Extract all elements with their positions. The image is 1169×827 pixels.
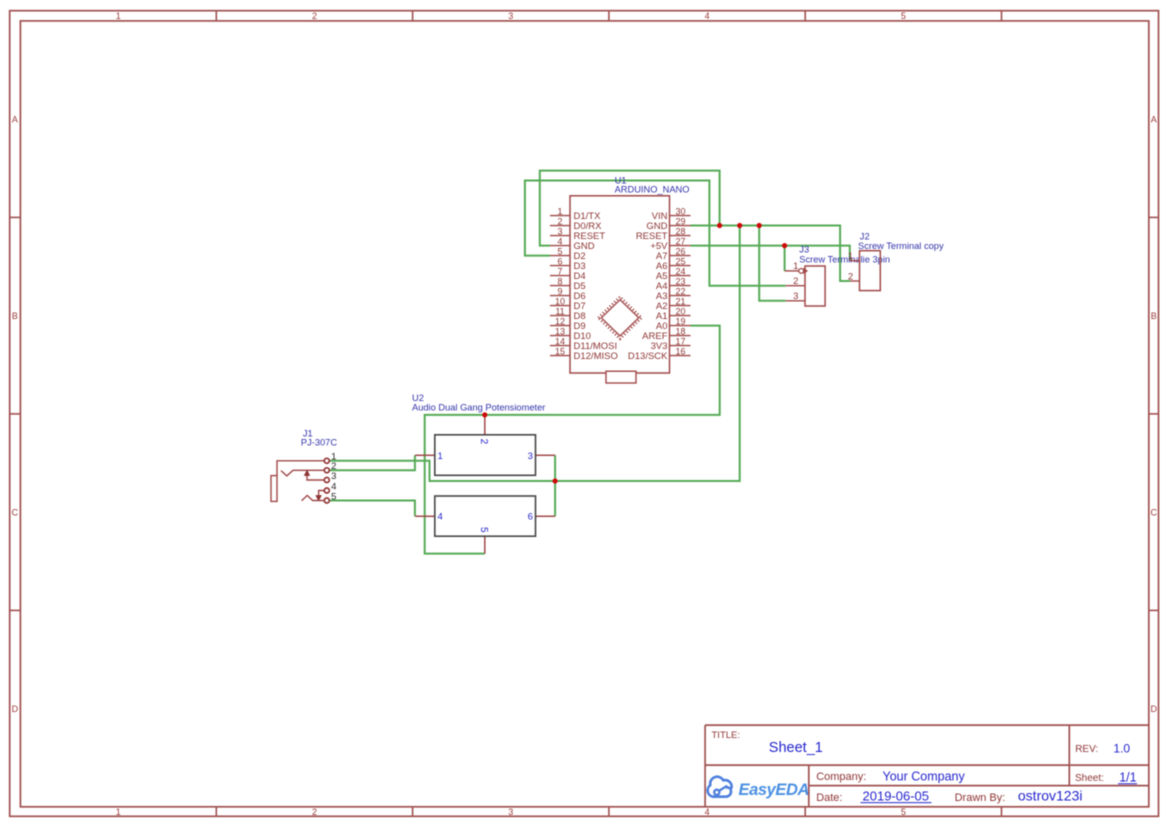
svg-text:18: 18 <box>675 327 685 337</box>
svg-text:5: 5 <box>478 527 489 533</box>
svg-text:26: 26 <box>675 247 685 257</box>
svg-text:Sheet:: Sheet: <box>1075 773 1104 784</box>
svg-text:11: 11 <box>555 307 564 317</box>
svg-text:19: 19 <box>675 317 685 327</box>
svg-text:17: 17 <box>675 337 685 347</box>
svg-text:5: 5 <box>901 807 906 817</box>
svg-text:4: 4 <box>438 512 443 523</box>
svg-text:2: 2 <box>848 271 853 282</box>
svg-text:3: 3 <box>508 807 513 817</box>
svg-text:1: 1 <box>793 261 798 272</box>
svg-text:2019-06-05: 2019-06-05 <box>863 789 930 804</box>
svg-text:30: 30 <box>675 207 685 217</box>
svg-text:J3: J3 <box>799 245 809 255</box>
svg-text:1: 1 <box>116 11 121 21</box>
svg-text:7: 7 <box>557 267 562 277</box>
svg-text:3: 3 <box>793 291 798 302</box>
svg-text:C: C <box>12 507 19 517</box>
svg-text:J2: J2 <box>860 231 870 241</box>
svg-text:21: 21 <box>675 297 685 307</box>
svg-text:Sheet_1: Sheet_1 <box>769 740 823 756</box>
svg-text:Screw Terminal copy: Screw Terminal copy <box>858 241 944 251</box>
svg-text:3: 3 <box>508 11 513 21</box>
svg-text:REV:: REV: <box>1075 744 1098 755</box>
svg-text:5: 5 <box>557 247 562 257</box>
svg-text:ARDUINO_NANO: ARDUINO_NANO <box>615 185 690 195</box>
svg-text:6: 6 <box>557 257 562 267</box>
svg-text:TITLE:: TITLE: <box>712 730 741 741</box>
svg-text:ostrov123i: ostrov123i <box>1018 788 1083 804</box>
svg-text:3: 3 <box>557 227 562 237</box>
svg-text:3: 3 <box>528 451 533 462</box>
svg-text:2: 2 <box>312 11 317 21</box>
svg-text:16: 16 <box>675 347 685 357</box>
svg-text:1/1: 1/1 <box>1119 771 1136 785</box>
svg-text:20: 20 <box>675 307 685 317</box>
svg-text:Audio Dual Gang Potensiometer: Audio Dual Gang Potensiometer <box>412 402 545 412</box>
svg-text:23: 23 <box>675 277 685 287</box>
svg-text:2: 2 <box>478 439 489 445</box>
svg-text:2: 2 <box>312 807 317 817</box>
svg-text:5: 5 <box>331 491 336 502</box>
svg-text:13: 13 <box>555 327 565 337</box>
svg-text:8: 8 <box>557 277 562 287</box>
svg-text:4: 4 <box>557 237 562 247</box>
svg-text:2: 2 <box>793 276 798 287</box>
svg-text:Drawn By:: Drawn By: <box>955 792 1006 804</box>
svg-text:1: 1 <box>116 807 121 817</box>
svg-text:1: 1 <box>557 207 562 217</box>
svg-text:PJ-307C: PJ-307C <box>301 438 337 448</box>
svg-text:5: 5 <box>901 11 906 21</box>
svg-text:10: 10 <box>555 297 565 307</box>
svg-text:A: A <box>1151 114 1157 124</box>
svg-text:14: 14 <box>555 337 565 347</box>
svg-text:28: 28 <box>675 227 685 237</box>
svg-text:29: 29 <box>675 217 685 227</box>
svg-text:25: 25 <box>675 257 685 267</box>
svg-text:C: C <box>1150 507 1157 517</box>
svg-text:D: D <box>1150 704 1157 714</box>
svg-text:U2: U2 <box>412 393 424 403</box>
svg-text:4: 4 <box>705 11 710 21</box>
svg-text:B: B <box>1151 311 1157 321</box>
svg-text:24: 24 <box>675 267 685 277</box>
svg-text:1: 1 <box>848 251 853 262</box>
svg-text:Screw Terminalie 3pin: Screw Terminalie 3pin <box>799 254 890 264</box>
svg-text:D13/SCK: D13/SCK <box>628 351 668 362</box>
svg-text:D12/MISO: D12/MISO <box>574 351 618 362</box>
svg-text:12: 12 <box>555 317 565 327</box>
svg-text:9: 9 <box>557 287 562 297</box>
svg-text:15: 15 <box>555 347 565 357</box>
svg-text:1.0: 1.0 <box>1113 742 1130 756</box>
svg-text:22: 22 <box>675 287 685 297</box>
svg-text:2: 2 <box>557 217 562 227</box>
svg-text:1: 1 <box>438 451 443 462</box>
svg-text:Company:: Company: <box>816 771 866 783</box>
svg-text:27: 27 <box>675 237 685 247</box>
svg-text:D: D <box>12 704 19 714</box>
svg-text:3: 3 <box>331 471 336 482</box>
svg-text:B: B <box>12 311 18 321</box>
svg-text:6: 6 <box>528 512 533 523</box>
svg-text:Your Company: Your Company <box>883 770 966 784</box>
svg-text:Date:: Date: <box>816 792 842 804</box>
svg-text:4: 4 <box>705 807 710 817</box>
svg-text:A: A <box>12 114 18 124</box>
svg-text:EasyEDA: EasyEDA <box>739 781 810 799</box>
